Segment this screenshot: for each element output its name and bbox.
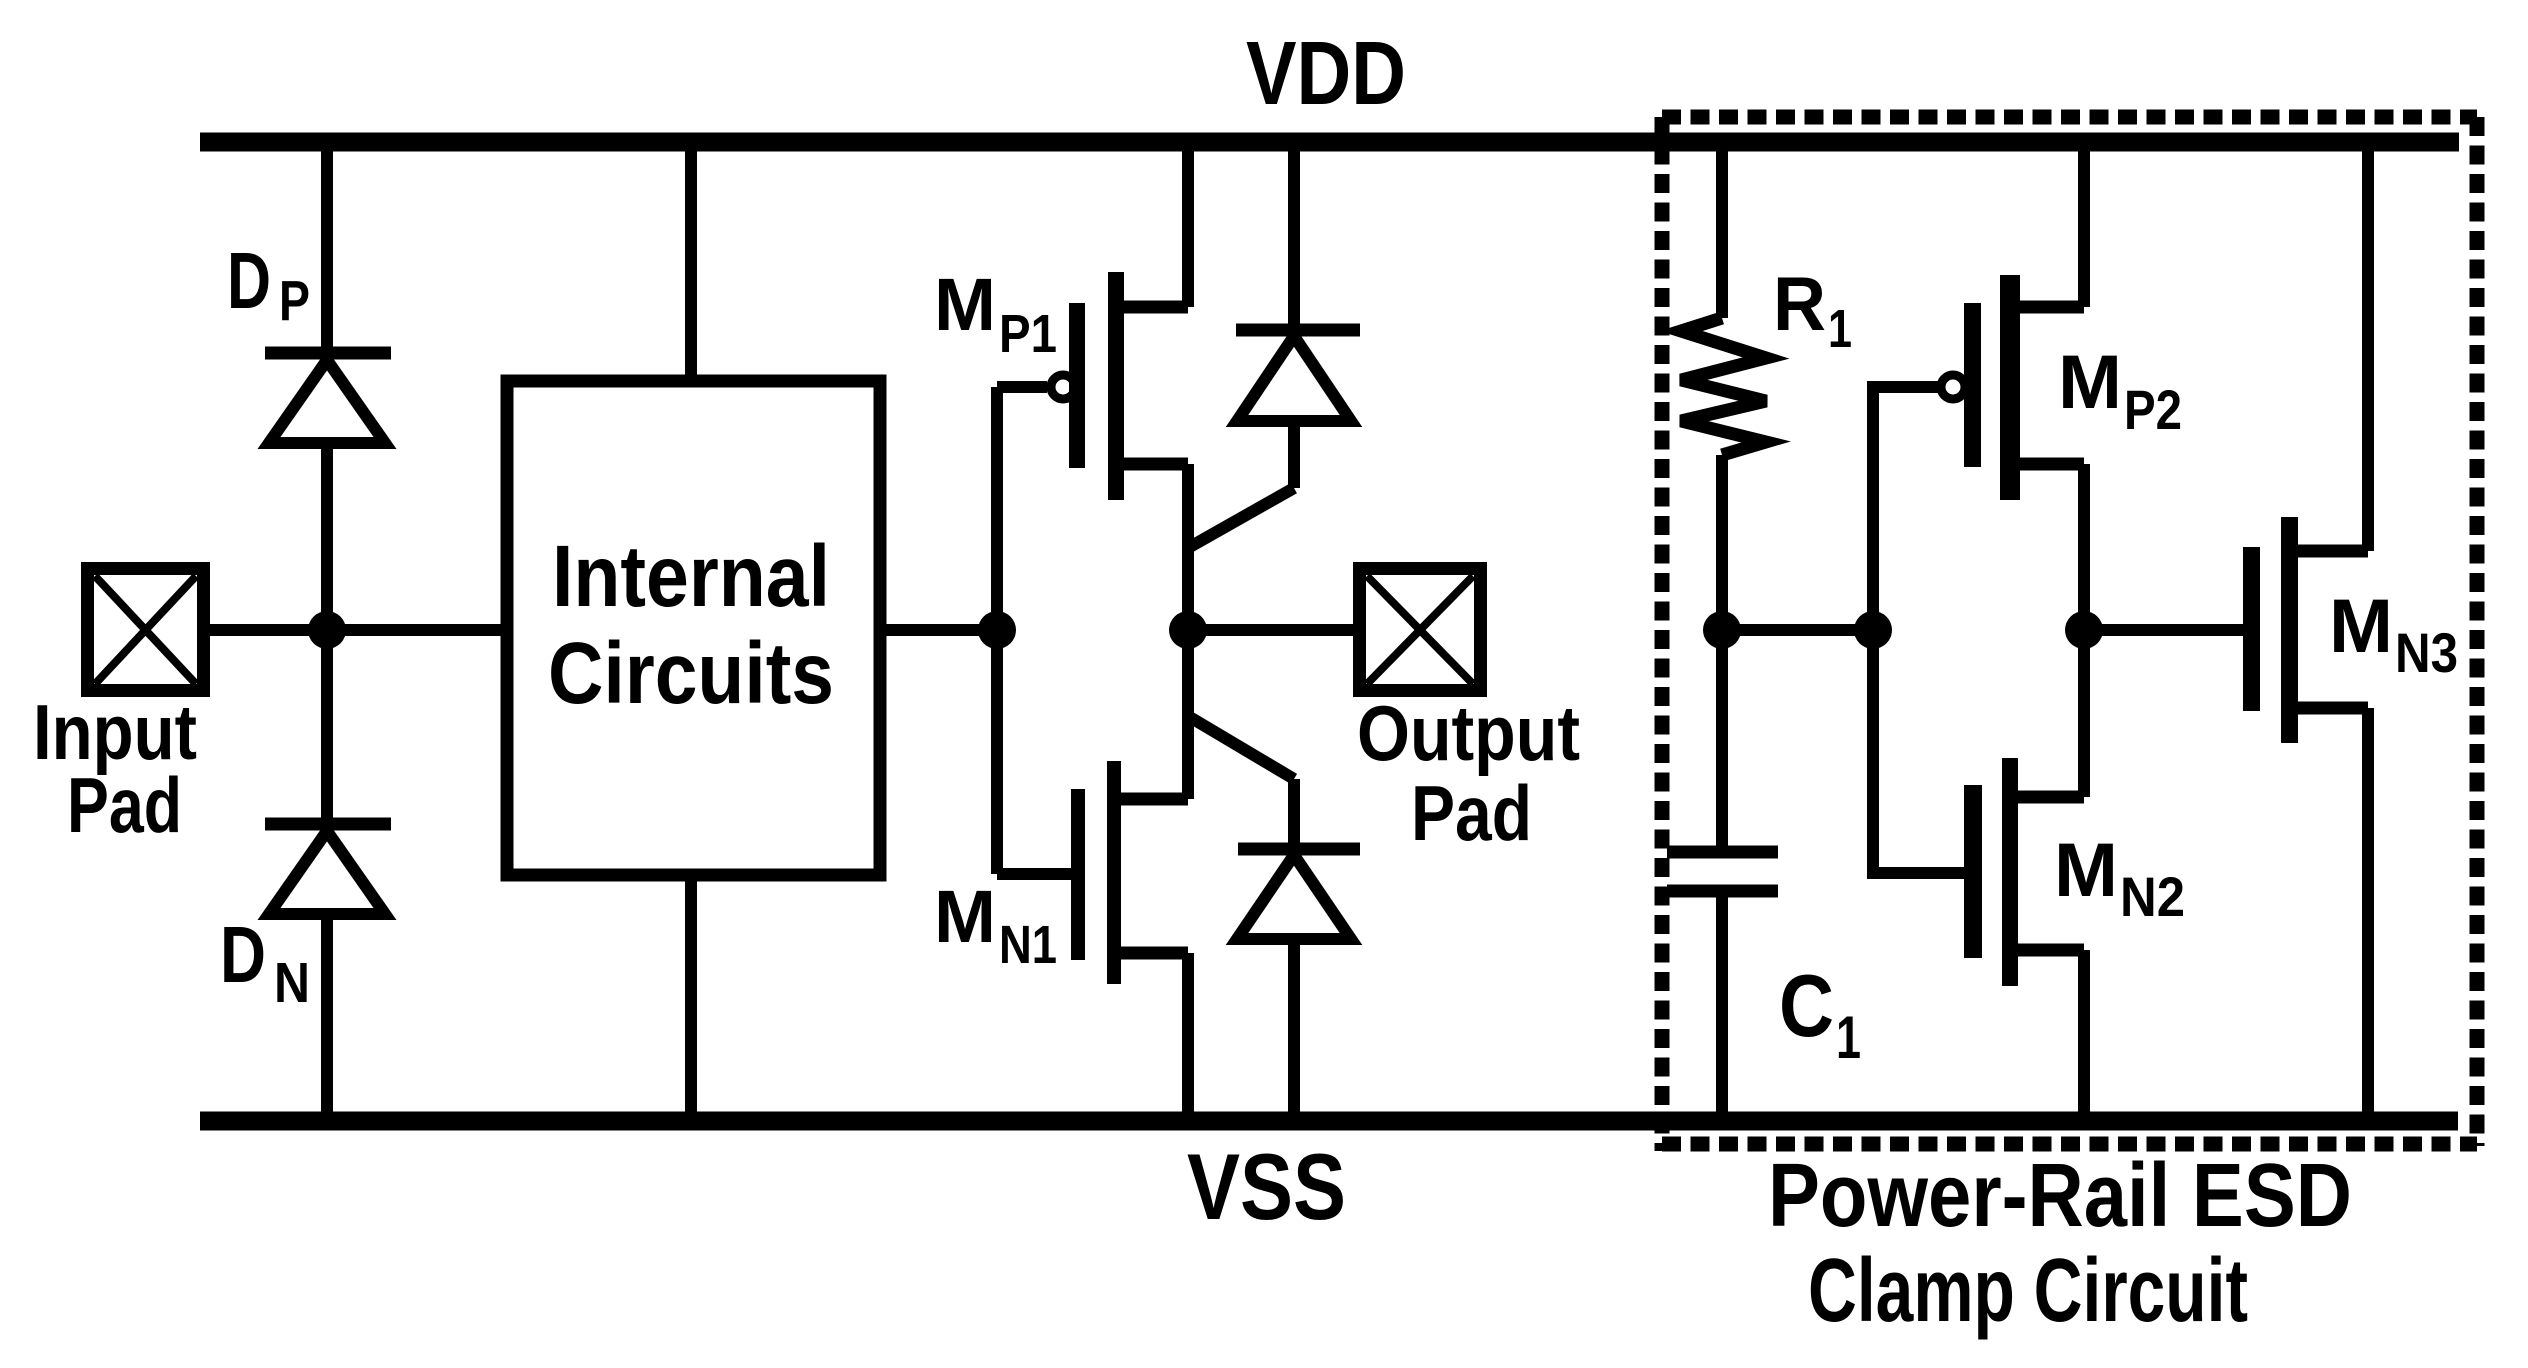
svg-text:P2: P2 bbox=[2124, 378, 2182, 441]
VSS rail bbox=[200, 1112, 2458, 1131]
svg-text:P: P bbox=[279, 269, 310, 333]
svg-text:N2: N2 bbox=[2120, 865, 2185, 928]
svg-text:P1: P1 bbox=[999, 304, 1057, 364]
wire VDD to internal box bbox=[685, 151, 697, 381]
svg-text:1: 1 bbox=[1836, 1004, 1861, 1071]
svg-text:Power-Rail ESD: Power-Rail ESD bbox=[1768, 1146, 2352, 1246]
output pad bbox=[1360, 569, 1481, 691]
internal circuits box bbox=[507, 381, 880, 875]
diode D4 VSS to output bbox=[1188, 716, 1360, 1112]
wire output node to pad bbox=[1188, 624, 1353, 636]
wire VDD to MP2 source bbox=[2078, 151, 2090, 307]
svg-text:Clamp Circuit: Clamp Circuit bbox=[1808, 1241, 2248, 1341]
nmos MN2 bbox=[1964, 758, 2084, 986]
wire RC node to gate node bbox=[1722, 624, 1873, 636]
node dot output bbox=[1169, 611, 1207, 649]
node dot input bbox=[308, 611, 346, 649]
wire MN3 source to VSS bbox=[2362, 708, 2374, 1112]
svg-text:M: M bbox=[2054, 828, 2118, 913]
svg-text:Output: Output bbox=[1357, 689, 1580, 777]
node dot MP2 drain bbox=[2065, 611, 2103, 649]
wire inverter input vertical bbox=[991, 387, 1003, 874]
pmos MP2 bbox=[1941, 275, 2084, 500]
diode DP bbox=[265, 353, 391, 443]
wire node to MN3 gate bbox=[2084, 624, 2243, 636]
wire internal box to inverter input bbox=[880, 624, 997, 636]
svg-text:M: M bbox=[2058, 340, 2122, 425]
node dot clamp gates bbox=[1854, 611, 1892, 649]
svg-text:Circuits: Circuits bbox=[548, 625, 834, 722]
svg-text:M: M bbox=[934, 263, 996, 346]
svg-text:D: D bbox=[227, 236, 271, 325]
wire gate node up to MP2 gate bbox=[1873, 387, 1938, 630]
diode DN bbox=[265, 824, 391, 914]
wire MN3 drain to VDD bbox=[2362, 151, 2374, 551]
svg-text:N: N bbox=[274, 951, 310, 1015]
node dot inverter input bbox=[978, 611, 1016, 649]
svg-text:Pad: Pad bbox=[67, 761, 182, 849]
capacitor C1 bbox=[1667, 852, 1778, 1112]
svg-text:M: M bbox=[2329, 584, 2393, 669]
input pad bbox=[88, 569, 204, 691]
svg-text:VDD: VDD bbox=[1246, 24, 1406, 124]
wire VDD to DP bbox=[321, 151, 333, 351]
wire DN to VSS bbox=[321, 914, 333, 1112]
VDD rail bbox=[200, 133, 2459, 152]
svg-text:VSS: VSS bbox=[1187, 1134, 1346, 1239]
svg-text:C: C bbox=[1779, 956, 1834, 1055]
wire input pad to internal circuits bbox=[210, 624, 507, 636]
svg-text:D: D bbox=[220, 910, 266, 999]
dashed box: Power-Rail ESD Clamp Circuit bbox=[1662, 117, 2477, 1151]
nmos MN3 bbox=[2243, 517, 2368, 743]
svg-text:M: M bbox=[934, 875, 996, 958]
wire input node to DN bbox=[321, 624, 333, 822]
node dot RC bbox=[1703, 611, 1741, 649]
svg-text:N3: N3 bbox=[2395, 621, 2458, 684]
svg-text:Internal: Internal bbox=[552, 528, 830, 625]
wire DP to input node bbox=[321, 443, 333, 636]
nmos MN1 bbox=[997, 761, 1188, 984]
svg-text:R: R bbox=[1773, 262, 1826, 347]
diode D3 output to VDD bbox=[1188, 151, 1360, 548]
wire MN1 source to VSS bbox=[1182, 953, 1194, 1112]
wire VDD to MP1 source bbox=[1182, 151, 1194, 307]
wire MN2 source to VSS bbox=[2078, 950, 2090, 1112]
wire node to C1 bbox=[1716, 630, 1728, 846]
wire MP1 drain to MN1 drain bbox=[1182, 464, 1194, 799]
wire internal box to VSS bbox=[685, 875, 697, 1112]
svg-text:N1: N1 bbox=[999, 915, 1057, 975]
wire gate node down to MN2 gate bbox=[1873, 630, 1964, 873]
resistor R1 bbox=[1681, 151, 1766, 636]
pmos MP1 bbox=[997, 272, 1188, 500]
svg-text:Pad: Pad bbox=[1411, 769, 1532, 857]
svg-text:1: 1 bbox=[1828, 299, 1852, 359]
wire MP2 drain to MN2 drain bbox=[2078, 464, 2090, 797]
